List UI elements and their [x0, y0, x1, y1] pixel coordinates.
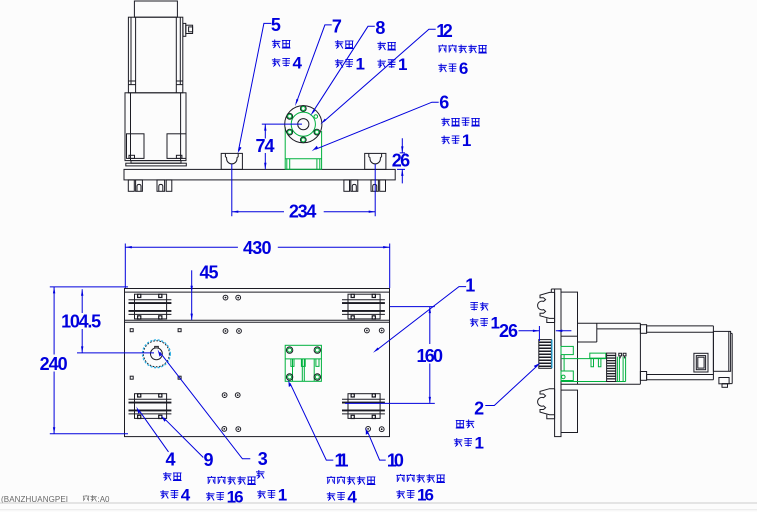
svg-text:6: 6 [439, 92, 449, 112]
slider top-right [342, 294, 385, 320]
svg-text:16: 16 [227, 488, 244, 507]
top rail [125, 292, 390, 322]
motor mount slabs [131, 161, 181, 164]
flange bolts [287, 106, 320, 143]
gearbox tabs [129, 155, 135, 158]
motor top cap [134, 1, 177, 17]
dimension 240 [40, 287, 68, 434]
nut flange [285, 106, 322, 143]
slider block bottom [561, 390, 578, 432]
svg-text:10: 10 [387, 451, 404, 471]
svg-text:1: 1 [398, 55, 407, 74]
svg-text:12: 12 [436, 21, 453, 41]
leader 12 (hex screws) [320, 21, 487, 125]
leader 7 (nut) [295, 16, 365, 106]
svg-text:16: 16 [417, 486, 434, 505]
svg-text:2: 2 [474, 399, 484, 419]
gearbox inner block right [167, 134, 186, 159]
set screws on top (black) [619, 353, 626, 358]
svg-text:5: 5 [271, 15, 281, 35]
nut (center ring) [298, 119, 309, 130]
svg-text:160: 160 [417, 346, 444, 366]
svg-text:240: 240 [40, 354, 68, 374]
leader 11 (hex screws 4) [288, 380, 375, 507]
dimension 26 (front) [392, 138, 411, 183]
ball small circle [314, 115, 318, 119]
svg-text:104.5: 104.5 [61, 312, 101, 332]
svg-text:8: 8 [375, 18, 385, 38]
motor body [128, 17, 182, 93]
slider bottom-left [129, 393, 172, 419]
svg-text:(BANZHUANGPEI: (BANZHUANGPEI [1, 495, 68, 504]
nut assembly internals (green, side) [561, 346, 626, 381]
slider top-left [129, 294, 172, 320]
rail profile bottom [538, 389, 555, 419]
gear (side, hatched) [539, 340, 552, 369]
dimension 26 (side) [499, 321, 571, 341]
nut seat (green) front view [285, 127, 321, 169]
svg-text:1: 1 [465, 276, 475, 296]
leader 1 (main body) [373, 276, 500, 353]
svg-text:3: 3 [258, 449, 268, 469]
slider bottom-right [342, 393, 385, 419]
svg-text:1: 1 [462, 131, 471, 150]
svg-text:6: 6 [459, 59, 468, 78]
leader 3 (key) [158, 349, 288, 504]
leader 5 (slider) [237, 15, 302, 154]
leader 2 (gear) [454, 363, 541, 453]
motor connector [183, 23, 186, 36]
svg-text:430: 430 [243, 238, 272, 258]
svg-text:4: 4 [166, 449, 176, 469]
dimension 234 [232, 164, 375, 221]
ball screw hatch column [607, 353, 616, 381]
plate holes [130, 295, 384, 431]
dimension 45 [191, 263, 219, 321]
svg-text:234: 234 [289, 201, 317, 221]
svg-text:26: 26 [392, 150, 411, 170]
leader 4 (slider) [136, 407, 191, 505]
base plate [124, 169, 395, 180]
svg-text:9: 9 [204, 450, 214, 470]
dimension 74 [256, 124, 303, 169]
motor body inner rails [128, 17, 182, 93]
connector square [694, 353, 708, 372]
svg-text:45: 45 [200, 263, 219, 283]
svg-text:4: 4 [347, 488, 357, 507]
svg-text:4: 4 [293, 54, 303, 73]
motor (side) [640, 325, 732, 388]
motor end cap [713, 331, 730, 371]
svg-text:1: 1 [278, 486, 287, 505]
main plate [125, 289, 390, 437]
leader 6 (nut seat) [312, 92, 480, 151]
gearbox housing [125, 93, 186, 161]
svg-text:74: 74 [256, 136, 275, 156]
dimension 104.5 [50, 287, 154, 434]
svg-text:4: 4 [181, 486, 191, 505]
svg-text:1: 1 [356, 55, 365, 74]
svg-text:11: 11 [335, 451, 349, 471]
svg-text:26: 26 [499, 321, 518, 341]
svg-text::A0: :A0 [98, 495, 111, 504]
gear (plan, with key) [143, 340, 171, 368]
rail clamp right [365, 153, 386, 169]
svg-text:7: 7 [332, 16, 342, 36]
leader 9 (hex screws 16) [161, 415, 256, 506]
motor foot [719, 378, 729, 384]
feet left group [128, 180, 134, 191]
dimension 160 [345, 307, 443, 404]
vertical plate edge [555, 289, 561, 437]
rail clamp left [221, 153, 242, 169]
leader 10 (hex screws 16) [366, 427, 445, 504]
slider block top [561, 292, 578, 336]
rail profile top [538, 292, 555, 322]
nut seat (plan, green) [285, 345, 321, 381]
gearbox housing (side) [561, 323, 640, 384]
status bar [0, 495, 757, 510]
gearbox inner block left [127, 134, 145, 159]
feet right group [344, 180, 350, 191]
svg-text:1: 1 [475, 434, 484, 453]
leader 8 (ball) [310, 18, 407, 116]
dimension 430 [125, 238, 389, 288]
